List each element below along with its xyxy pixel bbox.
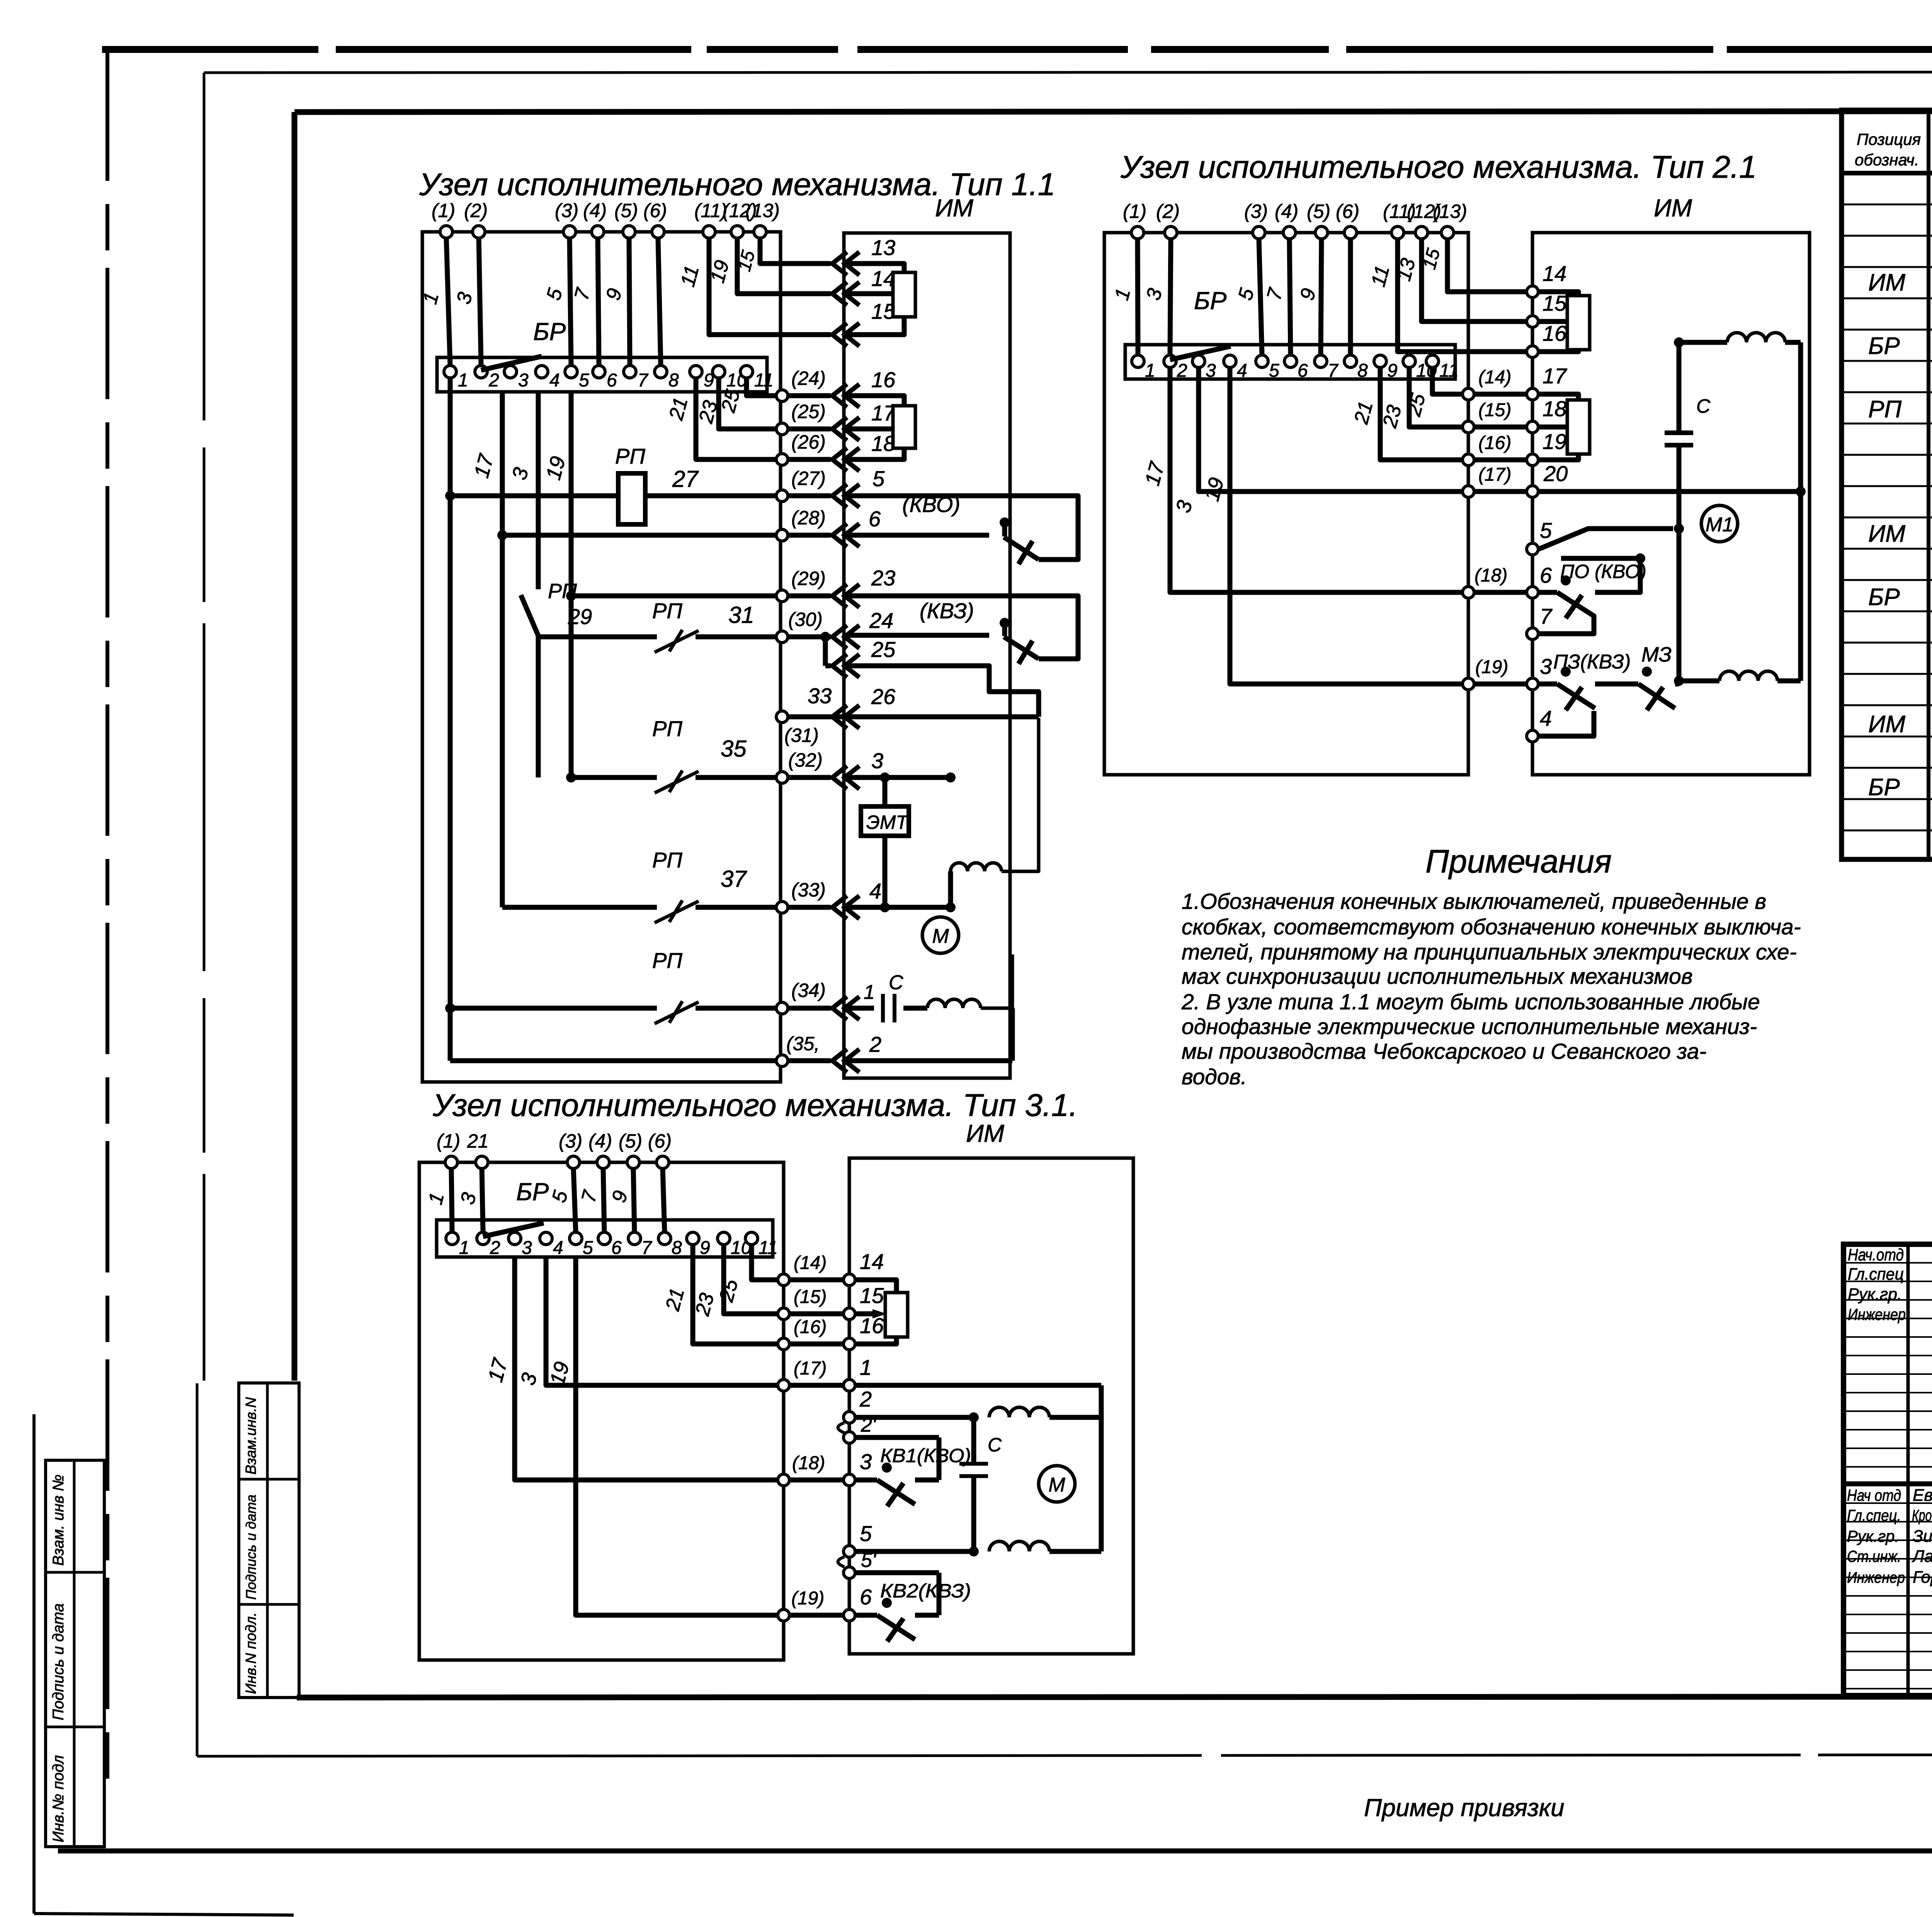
block БР outer box: [422, 232, 781, 1082]
wires 11 19 15 to ИМ rows 13 14 15: [677, 235, 904, 346]
table rows text: [1868, 204, 1932, 832]
node (18) row 3 switch КВ1(КВО): [778, 1437, 971, 1506]
svg-text:7: 7: [641, 1238, 653, 1258]
svg-text:31: 31: [728, 602, 754, 628]
svg-text:(35,: (35,: [786, 1033, 820, 1055]
schematic unit Тип 1.1: [419, 167, 1078, 1082]
ИМ terminal 7: [1527, 604, 1594, 640]
svg-text:(6): (6): [643, 200, 667, 221]
svg-text:16: 16: [1543, 321, 1567, 345]
svg-text:мы производства Чебоксарског: мы производства Чебоксарского и Севанско…: [1182, 1039, 1706, 1064]
svg-text:6: 6: [1298, 361, 1308, 381]
wires 11 13 15 to ИМ 14 15 16: [1367, 239, 1578, 357]
relay coil РП and wire 27 to node (27): [445, 444, 885, 524]
svg-text:(3): (3): [559, 1130, 582, 1152]
nodes (24)(25)(26) and ИМ rows 16 17 18: [776, 367, 904, 471]
svg-text:4: 4: [1540, 706, 1552, 730]
svg-text:ПО (КВО): ПО (КВО): [1560, 561, 1646, 582]
svg-text:Позиция: Позиция: [1857, 130, 1921, 148]
svg-text:(4): (4): [583, 200, 607, 221]
svg-text:скобках, соответствуют обозна: скобках, соответствуют обозначению конеч…: [1182, 915, 1801, 939]
svg-text:(4): (4): [1275, 201, 1298, 222]
svg-text:(5): (5): [614, 200, 638, 221]
terminals БР strip: [1132, 355, 1459, 381]
svg-text:М: М: [932, 925, 949, 947]
svg-text:4: 4: [553, 1238, 563, 1258]
svg-text:7: 7: [1328, 361, 1339, 381]
contact РП on rail: [521, 580, 577, 636]
svg-text:Узел исполнительного механизм: Узел исполнительного механизма. Тип 2.1: [1120, 150, 1757, 185]
svg-text:Кросташевский: Кросташевский: [1912, 1506, 1932, 1524]
motor M: [1039, 1466, 1075, 1502]
resistor heater R2: [893, 406, 915, 448]
svg-text:Лазаренко: Лазаренко: [1912, 1547, 1932, 1566]
svg-text:(18): (18): [792, 1453, 825, 1473]
svg-text:Узел исполнительного механиз: Узел исполнительного механизма. Тип 3.1.: [432, 1088, 1078, 1123]
wires top terminals to strip: [1111, 239, 1350, 360]
relay БР terminal strip: [437, 357, 767, 392]
svg-text:26: 26: [871, 684, 896, 709]
resistor heater R1: [893, 272, 915, 317]
node (18) row 6 switch ПО (КВО): [1463, 553, 1646, 618]
svg-text:БР: БР: [1868, 774, 1900, 801]
svg-text:23: 23: [871, 566, 895, 590]
svg-text:14: 14: [860, 1249, 884, 1274]
svg-text:КВ2(КВЗ): КВ2(КВЗ): [880, 1580, 971, 1602]
svg-text:8: 8: [672, 1238, 682, 1258]
motor windings and capacitor: [1665, 333, 1801, 681]
svg-text:16: 16: [871, 367, 896, 392]
svg-text:обознач.: обознач.: [1855, 151, 1919, 169]
svg-text:ИМ: ИМ: [1654, 194, 1692, 222]
svg-text:С: С: [889, 971, 903, 994]
svg-text:БР: БР: [516, 1178, 549, 1206]
svg-text:4: 4: [1237, 361, 1247, 381]
svg-text:БР: БР: [1868, 333, 1900, 359]
page edge scan mark: [32, 1414, 36, 1914]
wires strip 9 10 11 to nodes (14)(15)(16): [1350, 367, 1462, 460]
svg-text:37: 37: [721, 866, 747, 892]
svg-text:(1): (1): [437, 1130, 460, 1152]
svg-text:(24): (24): [791, 367, 826, 389]
svg-text:2: 2: [1177, 361, 1187, 381]
svg-text:С: С: [1696, 395, 1711, 417]
svg-text:5: 5: [579, 370, 589, 391]
svg-text:3: 3: [1206, 361, 1216, 381]
contact РП wire 29-31 node (30) row 24 КВЗ: [538, 596, 1078, 717]
svg-text:(15): (15): [794, 1287, 827, 1307]
svg-text:(30): (30): [788, 609, 823, 630]
svg-text:1: 1: [459, 1238, 469, 1258]
svg-text:Примечания: Примечания: [1425, 843, 1612, 879]
svg-text:ИМ: ИМ: [1868, 711, 1905, 738]
svg-text:(3): (3): [555, 200, 578, 221]
svg-text:11: 11: [759, 1238, 778, 1258]
svg-text:(3): (3): [1244, 201, 1268, 222]
svg-text:24: 24: [869, 608, 893, 633]
svg-text:(5): (5): [619, 1130, 642, 1152]
svg-text:(18): (18): [1475, 565, 1507, 586]
svg-text:(17): (17): [1478, 464, 1511, 485]
svg-text:МЗ: МЗ: [1641, 643, 1672, 666]
motor M: [922, 917, 959, 953]
svg-text:27: 27: [672, 466, 699, 492]
svg-text:(5): (5): [1307, 201, 1330, 222]
svg-text:Евтушенко: Евтушенко: [1913, 1486, 1932, 1505]
svg-text:5: 5: [860, 1521, 872, 1546]
svg-text:(14): (14): [794, 1253, 827, 1273]
svg-text:Подпись и дата: Подпись и дата: [50, 1603, 67, 1720]
title block texts upper: [1848, 1245, 1932, 1487]
component table: [1842, 110, 1932, 859]
wire 29 node (29) row 23: [566, 566, 895, 607]
svg-text:1: 1: [1145, 361, 1155, 381]
svg-text:5: 5: [872, 466, 885, 491]
wire 2 row (35): [450, 1008, 1012, 1072]
svg-text:2: 2: [859, 1387, 872, 1411]
svg-text:9: 9: [1387, 361, 1398, 381]
svg-text:РП: РП: [615, 444, 645, 468]
svg-text:однофазные электрические исп: однофазные электрические исполнительные …: [1182, 1014, 1757, 1039]
svg-text:(4): (4): [588, 1130, 612, 1152]
svg-text:1.Обозначения конечных выклю: 1.Обозначения конечных выключателей, при…: [1182, 889, 1766, 914]
ИМ terminals 2 2' winding and capacitor: [838, 1387, 1102, 1551]
svg-text:11: 11: [1439, 361, 1459, 381]
svg-text:(32): (32): [788, 749, 823, 771]
block БР outer box: [1104, 233, 1468, 775]
svg-text:РП: РП: [652, 848, 682, 872]
svg-text:Гл.спец.: Гл.спец.: [1847, 1506, 1901, 1524]
motor M1: [1701, 505, 1738, 542]
svg-text:Гл.спец: Гл.спец: [1848, 1265, 1904, 1284]
svg-text:ИМ: ИМ: [935, 194, 974, 222]
node (19) row 3 switches ПЗ(КВЗ) МЗ: [1463, 643, 1684, 710]
svg-text:Пример привязки: Пример привязки: [1364, 1794, 1565, 1822]
svg-text:8: 8: [1357, 361, 1368, 381]
svg-text:7: 7: [638, 370, 649, 391]
contact РП wire 35 node (32) row 3: [566, 637, 956, 793]
title block texts lower: [1847, 1486, 1932, 1699]
svg-text:(31): (31): [784, 725, 819, 746]
svg-text:Рук.гр.: Рук.гр.: [1847, 1527, 1899, 1545]
svg-text:РП: РП: [1868, 396, 1901, 423]
svg-text:16: 16: [860, 1313, 884, 1338]
svg-text:Зингерман: Зингерман: [1913, 1527, 1932, 1546]
svg-text:(26): (26): [791, 431, 826, 453]
svg-text:21: 21: [467, 1130, 489, 1152]
title block: [1844, 1244, 1932, 1696]
node (17) row 20: [1463, 461, 1806, 497]
ИМ terminal 5 and wire: [1527, 518, 1684, 555]
notes Примечания: [1181, 843, 1801, 1089]
svg-text:19: 19: [1543, 429, 1566, 454]
svg-text:3: 3: [518, 370, 529, 391]
svg-text:18: 18: [1543, 396, 1566, 421]
terminals top row: [437, 1130, 672, 1169]
svg-text:6: 6: [869, 507, 881, 531]
svg-text:ИМ: ИМ: [966, 1119, 1005, 1147]
schematic unit Тип 3.1: [419, 1088, 1133, 1660]
svg-text:8: 8: [668, 370, 679, 391]
svg-text:(29): (29): [791, 568, 826, 589]
terminals БР strip: [444, 366, 774, 391]
svg-text:2: 2: [490, 1238, 500, 1258]
contact РП row to wire 1: [445, 948, 875, 1024]
svg-text:(34): (34): [791, 980, 826, 1001]
svg-text:15: 15: [860, 1283, 884, 1308]
wires strip 9 10 11 to nodes (14)(15)(16): [661, 1245, 777, 1344]
svg-text:РП: РП: [652, 948, 682, 973]
svg-text:М: М: [1048, 1474, 1065, 1496]
brake ЭМТ: [861, 772, 909, 907]
svg-text:(14): (14): [1478, 367, 1511, 388]
svg-text:РП: РП: [652, 716, 682, 741]
svg-text:Рук.гр.: Рук.гр.: [1848, 1285, 1902, 1304]
svg-text:(19): (19): [1475, 657, 1508, 677]
terminals БР strip: [446, 1232, 778, 1258]
svg-text:(6): (6): [1336, 201, 1359, 222]
svg-text:(16): (16): [794, 1317, 827, 1337]
relay БР terminal strip: [437, 1220, 773, 1257]
svg-text:3: 3: [871, 748, 883, 773]
nodes (14)(15)(16) rows 17 18 19: [1463, 364, 1578, 466]
wire 28 to node (28) and КВО switch: [497, 492, 1078, 564]
svg-text:Горшенина: Горшенина: [1913, 1568, 1932, 1587]
svg-text:11: 11: [754, 370, 774, 391]
wires strip 9 10 11 to nodes 24 25 26: [665, 378, 776, 459]
inner stamp strip near drawing frame: [239, 1383, 299, 1698]
svg-text:35: 35: [721, 736, 747, 762]
svg-text:РП: РП: [652, 599, 682, 623]
svg-text:Инв.№ подл: Инв.№ подл: [50, 1755, 67, 1842]
resistor heater R4: [1567, 400, 1590, 454]
svg-text:М1: М1: [1706, 514, 1733, 536]
wires top terminals to strip: [419, 238, 661, 370]
svg-text:1: 1: [860, 1355, 872, 1379]
contact РП wire 37 node (33) row 4: [502, 848, 956, 923]
svg-text:6: 6: [611, 1238, 622, 1258]
svg-text:(2): (2): [464, 200, 488, 221]
svg-text:4: 4: [869, 879, 881, 903]
left rails 17 3 19: [484, 1257, 777, 1615]
frame (inner thick drawing border): [294, 111, 1932, 1698]
svg-text:Ст.инж.: Ст.инж.: [1847, 1547, 1901, 1565]
svg-text:25: 25: [871, 637, 896, 662]
svg-text:(19): (19): [791, 1588, 824, 1609]
block ИМ box: [849, 1158, 1133, 1654]
wires top terminals to strip: [424, 1169, 665, 1237]
svg-text:БР: БР: [1868, 584, 1900, 611]
svg-text:(2): (2): [1156, 201, 1180, 222]
svg-text:Нач отд: Нач отд: [1847, 1486, 1901, 1504]
capacitor C and motor winding: [846, 954, 1012, 1022]
svg-text:Инв.N подл.: Инв.N подл.: [243, 1612, 259, 1694]
potentiometer resistor R5: [885, 1293, 908, 1337]
node 33 row 26: [776, 684, 1039, 746]
svg-text:13: 13: [871, 235, 895, 260]
svg-text:(33): (33): [791, 879, 826, 901]
block ИМ box: [1532, 233, 1810, 775]
svg-text:(27): (27): [791, 468, 826, 489]
svg-text:мах синхронизации исполнител: мах синхронизации исполнительных механиз…: [1182, 964, 1693, 989]
svg-text:6: 6: [607, 370, 617, 391]
svg-text:(13): (13): [745, 200, 780, 221]
svg-text:ИМ: ИМ: [1868, 520, 1905, 547]
node (19) row 6 switch КВ2(КВЗ): [778, 1573, 971, 1641]
svg-text:3: 3: [860, 1449, 872, 1474]
svg-text:БР: БР: [533, 318, 566, 345]
svg-text:(КВЗ): (КВЗ): [920, 599, 974, 623]
svg-text:(25): (25): [791, 401, 826, 422]
svg-text:ЭМТ: ЭМТ: [866, 811, 909, 833]
svg-text:КВ1(КВО): КВ1(КВО): [880, 1445, 971, 1466]
svg-text:ИМ: ИМ: [1868, 269, 1905, 296]
ИМ terminals 5 5' winding: [838, 1417, 1102, 1579]
svg-text:Взам. инв №: Взам. инв №: [50, 1475, 67, 1566]
svg-text:(6): (6): [648, 1130, 672, 1152]
svg-text:водов.: водов.: [1182, 1065, 1247, 1089]
svg-text:15: 15: [1543, 291, 1567, 315]
block ИМ box: [844, 233, 1010, 1078]
svg-text:2: 2: [869, 1032, 881, 1056]
svg-text:телей, принятому на принципиа: телей, принятому на принципиальных элект…: [1182, 940, 1797, 964]
svg-text:5: 5: [1540, 518, 1552, 543]
svg-text:БР: БР: [1194, 287, 1227, 315]
svg-text:2: 2: [488, 370, 499, 391]
svg-text:33: 33: [808, 684, 832, 708]
svg-text:20: 20: [1543, 461, 1568, 486]
svg-text:(28): (28): [791, 507, 826, 529]
block БР outer box: [419, 1162, 784, 1660]
svg-text:Нач.отд: Нач.отд: [1848, 1245, 1904, 1264]
svg-text:9: 9: [700, 1238, 710, 1258]
svg-text:6: 6: [860, 1585, 872, 1609]
svg-text:17: 17: [1543, 364, 1567, 388]
svg-text:3: 3: [522, 1238, 532, 1258]
svg-text:Подпись и дата: Подпись и дата: [243, 1495, 259, 1600]
sheet border frame (outer, broken): [102, 46, 1932, 53]
svg-text:4: 4: [549, 370, 560, 391]
svg-text:29: 29: [568, 604, 592, 629]
svg-text:Взам.инв.N: Взам.инв.N: [243, 1397, 259, 1475]
svg-text:1: 1: [458, 370, 468, 391]
svg-text:6: 6: [1540, 563, 1552, 587]
svg-text:Инженер: Инженер: [1847, 1569, 1905, 1586]
nodes (14)(15)(16) rows 14 15 16: [778, 1249, 896, 1350]
svg-text:5: 5: [1269, 361, 1279, 381]
svg-text:1: 1: [864, 981, 875, 1004]
brake coil: [951, 718, 1039, 871]
ИМ terminal 4: [1527, 706, 1594, 742]
svg-text:(15): (15): [1478, 400, 1511, 420]
svg-text:(13): (13): [1433, 201, 1467, 222]
svg-text:Инженер: Инженер: [1848, 1305, 1906, 1323]
terminals top row: [432, 200, 780, 238]
terminals top row: [1123, 201, 1467, 239]
svg-text:С: С: [988, 1434, 1002, 1456]
svg-text:3: 3: [1540, 654, 1552, 679]
svg-text:(17): (17): [794, 1358, 827, 1379]
left rails 17 3 19: [450, 378, 571, 1061]
svg-text:(16): (16): [1478, 433, 1511, 453]
svg-text:5: 5: [583, 1238, 593, 1258]
resistor heater R3: [1567, 296, 1590, 350]
relay БР terminal strip: [1125, 345, 1455, 379]
svg-text:(1): (1): [432, 200, 455, 221]
left margin stamp strip (outer): [46, 1460, 104, 1847]
left rails 17 3 19: [1141, 367, 1462, 684]
svg-text:14: 14: [1543, 261, 1566, 286]
node (17) row 1: [778, 1355, 1101, 1417]
schematic unit Тип 2.1: [1104, 150, 1810, 775]
svg-text:7: 7: [1540, 604, 1553, 628]
svg-text:(1): (1): [1123, 201, 1146, 222]
svg-text:2. В узле типа 1.1 могут быт: 2. В узле типа 1.1 могут быть использова…: [1181, 990, 1760, 1014]
